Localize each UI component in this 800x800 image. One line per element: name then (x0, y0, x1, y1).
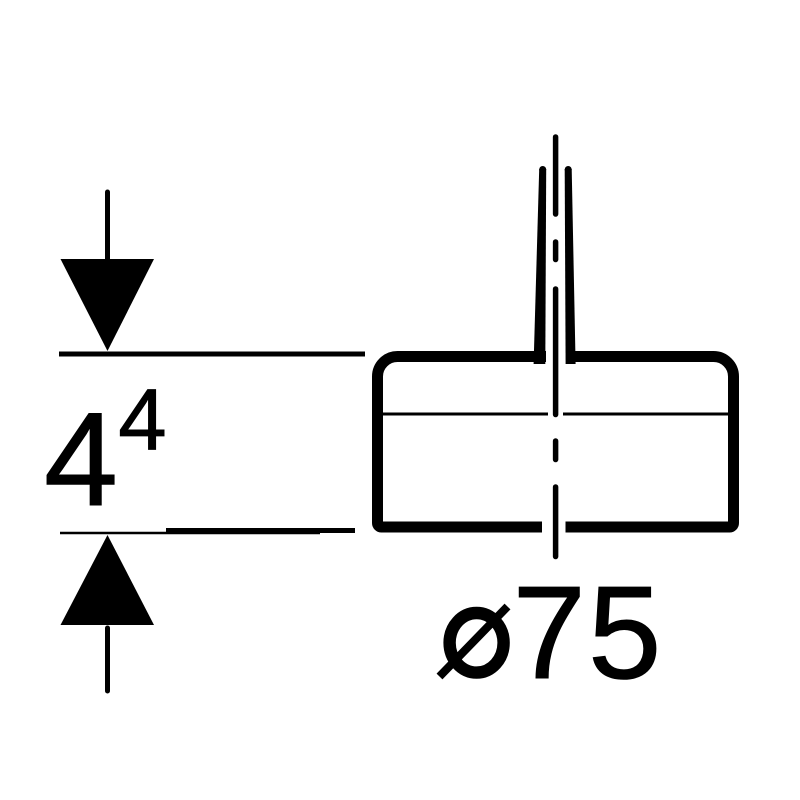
centerline dot 2 (553, 441, 559, 460)
dimension arrow bottom stem (105, 628, 110, 691)
dimension arrow top stem (105, 192, 110, 268)
svg-text:7: 7 (513, 559, 586, 706)
svg-text:5: 5 (588, 559, 661, 706)
inner water line right (563, 413, 728, 416)
centerline dot 1 (553, 242, 559, 260)
svg-text:4: 4 (118, 372, 166, 469)
lower dimension boundary line thick (166, 528, 355, 533)
diameter symbol slash (440, 607, 508, 677)
dimension arrow top head (61, 259, 155, 351)
centerline dash 2 (553, 289, 559, 415)
stem right wall cap (565, 166, 572, 173)
stem left wall (534, 169, 547, 364)
inner water line left (383, 413, 548, 416)
centerline dash 3 (553, 487, 559, 557)
centerline dash 1 (553, 137, 559, 214)
part outline right section (566, 357, 734, 528)
lower extension line thin (60, 532, 320, 535)
dimension arrow bottom head (61, 535, 155, 625)
svg-text:4: 4 (44, 386, 118, 534)
stem right wall (565, 169, 576, 364)
diameter symbol circle (450, 613, 504, 673)
part outline left section (378, 357, 547, 528)
stem left wall cap (539, 166, 546, 173)
upper dimension boundary line (59, 352, 365, 357)
